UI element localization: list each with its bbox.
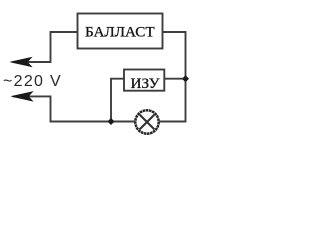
- lamp X stroke 2: [140, 115, 155, 130]
- izu box: [124, 70, 164, 91]
- wire from ballast left to upper arrow corner: [13, 32, 78, 62]
- wire from lower arrow corner down to bottom rail: [13, 96, 135, 121]
- svg-text:~220 V: ~220 V: [3, 73, 62, 90]
- wire izu right to right rail: [164, 78, 185, 80]
- wire izu left down to bottom rail: [111, 79, 124, 122]
- arrowhead lower (mains input): [12, 92, 33, 101]
- svg-text:ИЗУ: ИЗУ: [131, 75, 160, 92]
- lamp X stroke 1: [140, 115, 155, 130]
- junction dot bottom rail: [108, 118, 115, 125]
- ballast box: [78, 14, 163, 49]
- lamp circle: [135, 110, 158, 133]
- junction dot right rail: [182, 75, 189, 82]
- arrowhead upper (mains input): [11, 57, 32, 66]
- wire from ballast right to right rail down to lamp: [159, 32, 185, 122]
- svg-text:БАЛЛАСТ: БАЛЛАСТ: [85, 24, 155, 41]
